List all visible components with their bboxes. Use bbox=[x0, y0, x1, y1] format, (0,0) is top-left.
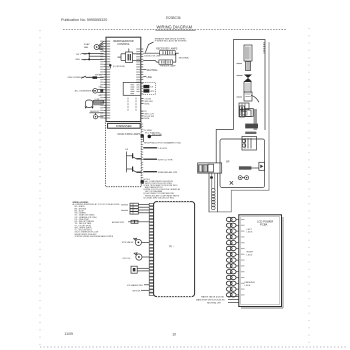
board lower edge pins bbox=[141, 84, 143, 94]
thermal fuse X bbox=[230, 181, 233, 185]
notes list block bbox=[143, 179, 181, 200]
svg-text:RIGHT: RIGHT bbox=[247, 252, 254, 254]
svg-text:NEUTRAL: NEUTRAL bbox=[147, 69, 159, 72]
ice/water valve dashed box bbox=[141, 82, 155, 94]
svg-text:SGNL: SGNL bbox=[144, 103, 150, 105]
dispenser harness connector box J1 bbox=[154, 202, 195, 297]
svg-text:LSDS: LSDS bbox=[247, 254, 253, 256]
water tank coil bbox=[209, 173, 218, 212]
svg-text:LEFT: LEFT bbox=[247, 229, 253, 231]
svg-text:BP: BP bbox=[226, 161, 230, 164]
harness connector pins bbox=[149, 203, 153, 295]
neutral pin label bbox=[143, 69, 158, 72]
svg-text:LID HTR: LID HTR bbox=[159, 148, 168, 150]
recessed lamps label bbox=[156, 47, 178, 50]
inline plug wire bbox=[112, 220, 149, 224]
svg-text:DISPENSER: DISPENSER bbox=[116, 124, 132, 128]
publication number text bbox=[61, 18, 107, 22]
svg-text:CONTROL: CONTROL bbox=[117, 42, 130, 46]
120V supply label bbox=[76, 54, 82, 61]
svg-text:FREEZER: FREEZER bbox=[245, 282, 256, 284]
footer date bbox=[65, 332, 74, 336]
svg-text:120 V: 120 V bbox=[76, 54, 82, 56]
svg-text:PCBA: PCBA bbox=[260, 223, 268, 227]
freezer fan wire bbox=[143, 171, 177, 174]
page border left dotted line bbox=[39, 30, 41, 347]
svg-text:[1] →: [1] → bbox=[169, 245, 175, 248]
ground symbol on board bbox=[109, 64, 125, 68]
svg-text:SOLID STATE LAMPS: SOLID STATE LAMPS bbox=[117, 133, 140, 136]
svg-text:FREEZER LAMP: FREEZER LAMP bbox=[160, 64, 177, 67]
footer page number bbox=[172, 332, 176, 336]
defrost heater circuit bbox=[90, 111, 104, 119]
icemaker receptacle wiring bbox=[143, 130, 181, 144]
svg-text:EVAP: EVAP bbox=[84, 43, 90, 46]
harness cross bar connectors bbox=[198, 161, 230, 179]
svg-text:WIRING DIAGRAM: WIRING DIAGRAM bbox=[157, 25, 193, 30]
control board left pins bbox=[100, 41, 143, 118]
model number text bbox=[166, 16, 181, 20]
personality connector sub-box bbox=[123, 82, 141, 95]
dispenser transistor circuit bbox=[125, 149, 141, 172]
refrigerator control board U1 bbox=[106, 37, 141, 121]
svg-text:11/09: 11/09 bbox=[65, 332, 74, 336]
svg-text:EI23BC36: EI23BC36 bbox=[166, 16, 181, 20]
door assembly outline bbox=[209, 40, 270, 212]
freezer lamp circuit bbox=[143, 53, 176, 67]
water filter column bbox=[239, 43, 264, 117]
svg-text:(F) GROUND: (F) GROUND bbox=[113, 66, 126, 68]
svg-text:ICE MAKER WH: ICE MAKER WH bbox=[127, 284, 143, 287]
board internal connector label columns bbox=[128, 98, 136, 112]
dispenser heater element bbox=[239, 162, 265, 170]
door switch row bbox=[68, 75, 104, 79]
door lamp pair bbox=[238, 176, 248, 180]
svg-text:S-MOLD BK LINE: S-MOLD BK LINE bbox=[144, 56, 161, 58]
LCD power PCBA box bbox=[239, 215, 283, 308]
svg-text:P WIRES WILL ALSO BE STRIPED: P WIRES WILL ALSO BE STRIPED bbox=[155, 40, 187, 43]
mid connectors in door bbox=[240, 106, 258, 150]
page border bottom dotted line bbox=[40, 346, 348, 348]
condenser fan motor M2 bbox=[75, 86, 104, 97]
dispenser board section bbox=[106, 122, 142, 187]
svg-text:FAN: FAN bbox=[84, 46, 89, 49]
page border top dashed line bbox=[63, 29, 287, 31]
line pin label bbox=[143, 76, 152, 79]
supply wires with junction bbox=[82, 53, 104, 62]
water valve solenoid V1 bbox=[122, 238, 150, 245]
svg-text:LSDS: LSDS bbox=[245, 285, 251, 287]
ice valve solenoid V2 bbox=[122, 253, 149, 260]
evap fan wires bbox=[99, 41, 104, 50]
svg-text:RECESSED LAMPS: RECESSED LAMPS bbox=[156, 47, 178, 50]
svg-text:WTR VALVE: WTR VALVE bbox=[122, 241, 134, 244]
title WIRING DIAGRAM bbox=[156, 25, 196, 31]
svg-text:NEUTRAL: NEUTRAL bbox=[179, 57, 190, 60]
dispenser edge pins bbox=[141, 124, 143, 183]
dispenser right edge bold pins bbox=[141, 135, 144, 184]
svg-text:ICE VLV: ICE VLV bbox=[122, 258, 130, 260]
svg-text:RECEPTACLE FOR ICEMAKER KIT(S): RECEPTACLE FOR ICEMAKER KIT(S) bbox=[144, 141, 181, 144]
aux pin labels group1 bbox=[141, 99, 153, 106]
svg-text:WH BK: WH BK bbox=[95, 75, 102, 77]
water column labels bbox=[237, 64, 243, 98]
wiring legend block bbox=[73, 202, 121, 238]
compressor with overload bbox=[85, 99, 104, 109]
svg-text:Publication No: 5995555320: Publication No: 5995555320 bbox=[61, 18, 107, 22]
aux pin labels group2 bbox=[141, 111, 155, 120]
svg-text:LSDS: LSDS bbox=[247, 232, 253, 234]
note text with leader bbox=[145, 37, 187, 52]
s-mold wire label bbox=[144, 56, 161, 58]
recessed lamps circuit bbox=[143, 51, 189, 60]
ice maker labels bbox=[127, 284, 149, 293]
LCD pin labels bbox=[245, 229, 256, 287]
svg-text:STRIPED WIRES SHOWN AS BASE-ST: STRIPED WIRES SHOWN AS BASE-STRIPE bbox=[75, 235, 114, 238]
svg-text:FREEZER AIR HTR: FREEZER AIR HTR bbox=[158, 171, 178, 174]
svg-text:WH CONN: WH CONN bbox=[152, 134, 162, 136]
svg-text:MTR BK: MTR BK bbox=[133, 290, 141, 292]
svg-text:AUGER MTR: AUGER MTR bbox=[112, 221, 125, 224]
svg-text:5) 120VAC 60HZ 15A CIRCUIT RE: 5) 120VAC 60HZ 15A CIRCUIT REQ bbox=[143, 196, 174, 199]
LCD pin number marks bbox=[241, 220, 245, 295]
dispenser switch box bbox=[131, 266, 149, 273]
svg-text:WATER VALVE (ICE) BK: WATER VALVE (ICE) BK bbox=[201, 295, 225, 298]
lid heater wire bbox=[143, 148, 167, 150]
page border right dotted line bbox=[308, 28, 310, 347]
relay K1 inside control bbox=[118, 49, 141, 63]
water valve wire bbox=[143, 159, 173, 161]
svg-text:WTR: WTR bbox=[150, 91, 155, 93]
svg-text:WTR VLV HTR: WTR VLV HTR bbox=[158, 159, 173, 161]
svg-text:LINE: LINE bbox=[147, 76, 153, 79]
svg-text:SGNL: SGNL bbox=[144, 118, 150, 120]
svg-text:NEUTRAL WH: NEUTRAL WH bbox=[207, 301, 221, 304]
top multi connector P1 bbox=[121, 203, 149, 214]
svg-text:10: 10 bbox=[172, 332, 176, 336]
svg-text:NEU: NEU bbox=[76, 59, 81, 61]
svg-text:MAIN HIGH SWITCH (ICE) RD: MAIN HIGH SWITCH (ICE) RD bbox=[196, 298, 225, 301]
lsd connector ovals bbox=[226, 217, 239, 297]
LCD bottom wire labels bbox=[196, 295, 239, 304]
evap fan motor M1 bbox=[84, 43, 99, 49]
